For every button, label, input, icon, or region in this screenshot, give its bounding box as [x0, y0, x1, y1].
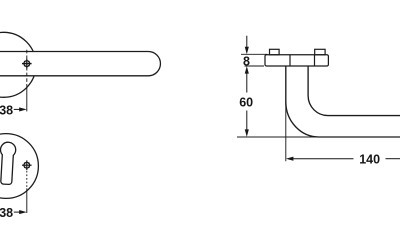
dimension 8 (plate thickness), outside arrows — [243, 36, 250, 69]
plate division line left — [289, 55, 291, 66]
extension line, plate top — [241, 53, 268, 55]
dotted centerline below crosshair — [26, 171, 28, 189]
escutcheon circle (Ø38, cropped at left edge) — [0, 134, 38, 199]
rose circle (front view, Ø38, cropped at left edge) — [0, 32, 36, 97]
lever bottom line + extension (side view, cropped at right) — [237, 136, 400, 138]
extension line for 140 (back of neck) — [285, 101, 287, 161]
fixing screw head left (side view) — [270, 49, 280, 55]
dimension 38 (rose diameter, top view) — [0, 103, 27, 117]
dimension 60 (projection height) — [239, 66, 253, 137]
spindle screw symbol (front view) — [22, 59, 32, 69]
extension line below escutcheon — [26, 188, 28, 213]
svg-text:8: 8 — [243, 54, 250, 68]
handle outer contour (neck + underside of grip) — [286, 66, 400, 137]
svg-text:38: 38 — [0, 206, 13, 220]
extension line, plate bottom — [245, 65, 265, 67]
lever grip bar (front view, cropped at left edge) — [0, 52, 160, 76]
svg-text:38: 38 — [0, 103, 13, 117]
fixing screw crosshair symbol (escutcheon) — [22, 160, 32, 170]
svg-text:140: 140 — [359, 153, 380, 167]
rose plate (side view) — [265, 55, 328, 66]
plate division line right — [314, 55, 316, 66]
dimension 140 (grip length, cropped at right) — [286, 153, 400, 167]
euro profile keyhole — [0, 142, 16, 185]
centerline through spindle (dashed) — [26, 50, 28, 86]
svg-text:60: 60 — [239, 95, 253, 109]
fixing screw head right (side view) — [315, 49, 325, 55]
dimension 38 (escutcheon diameter) — [0, 206, 27, 220]
extension line below rose — [26, 86, 28, 111]
handle inner contour (neck + top of grip) — [308, 66, 400, 116]
